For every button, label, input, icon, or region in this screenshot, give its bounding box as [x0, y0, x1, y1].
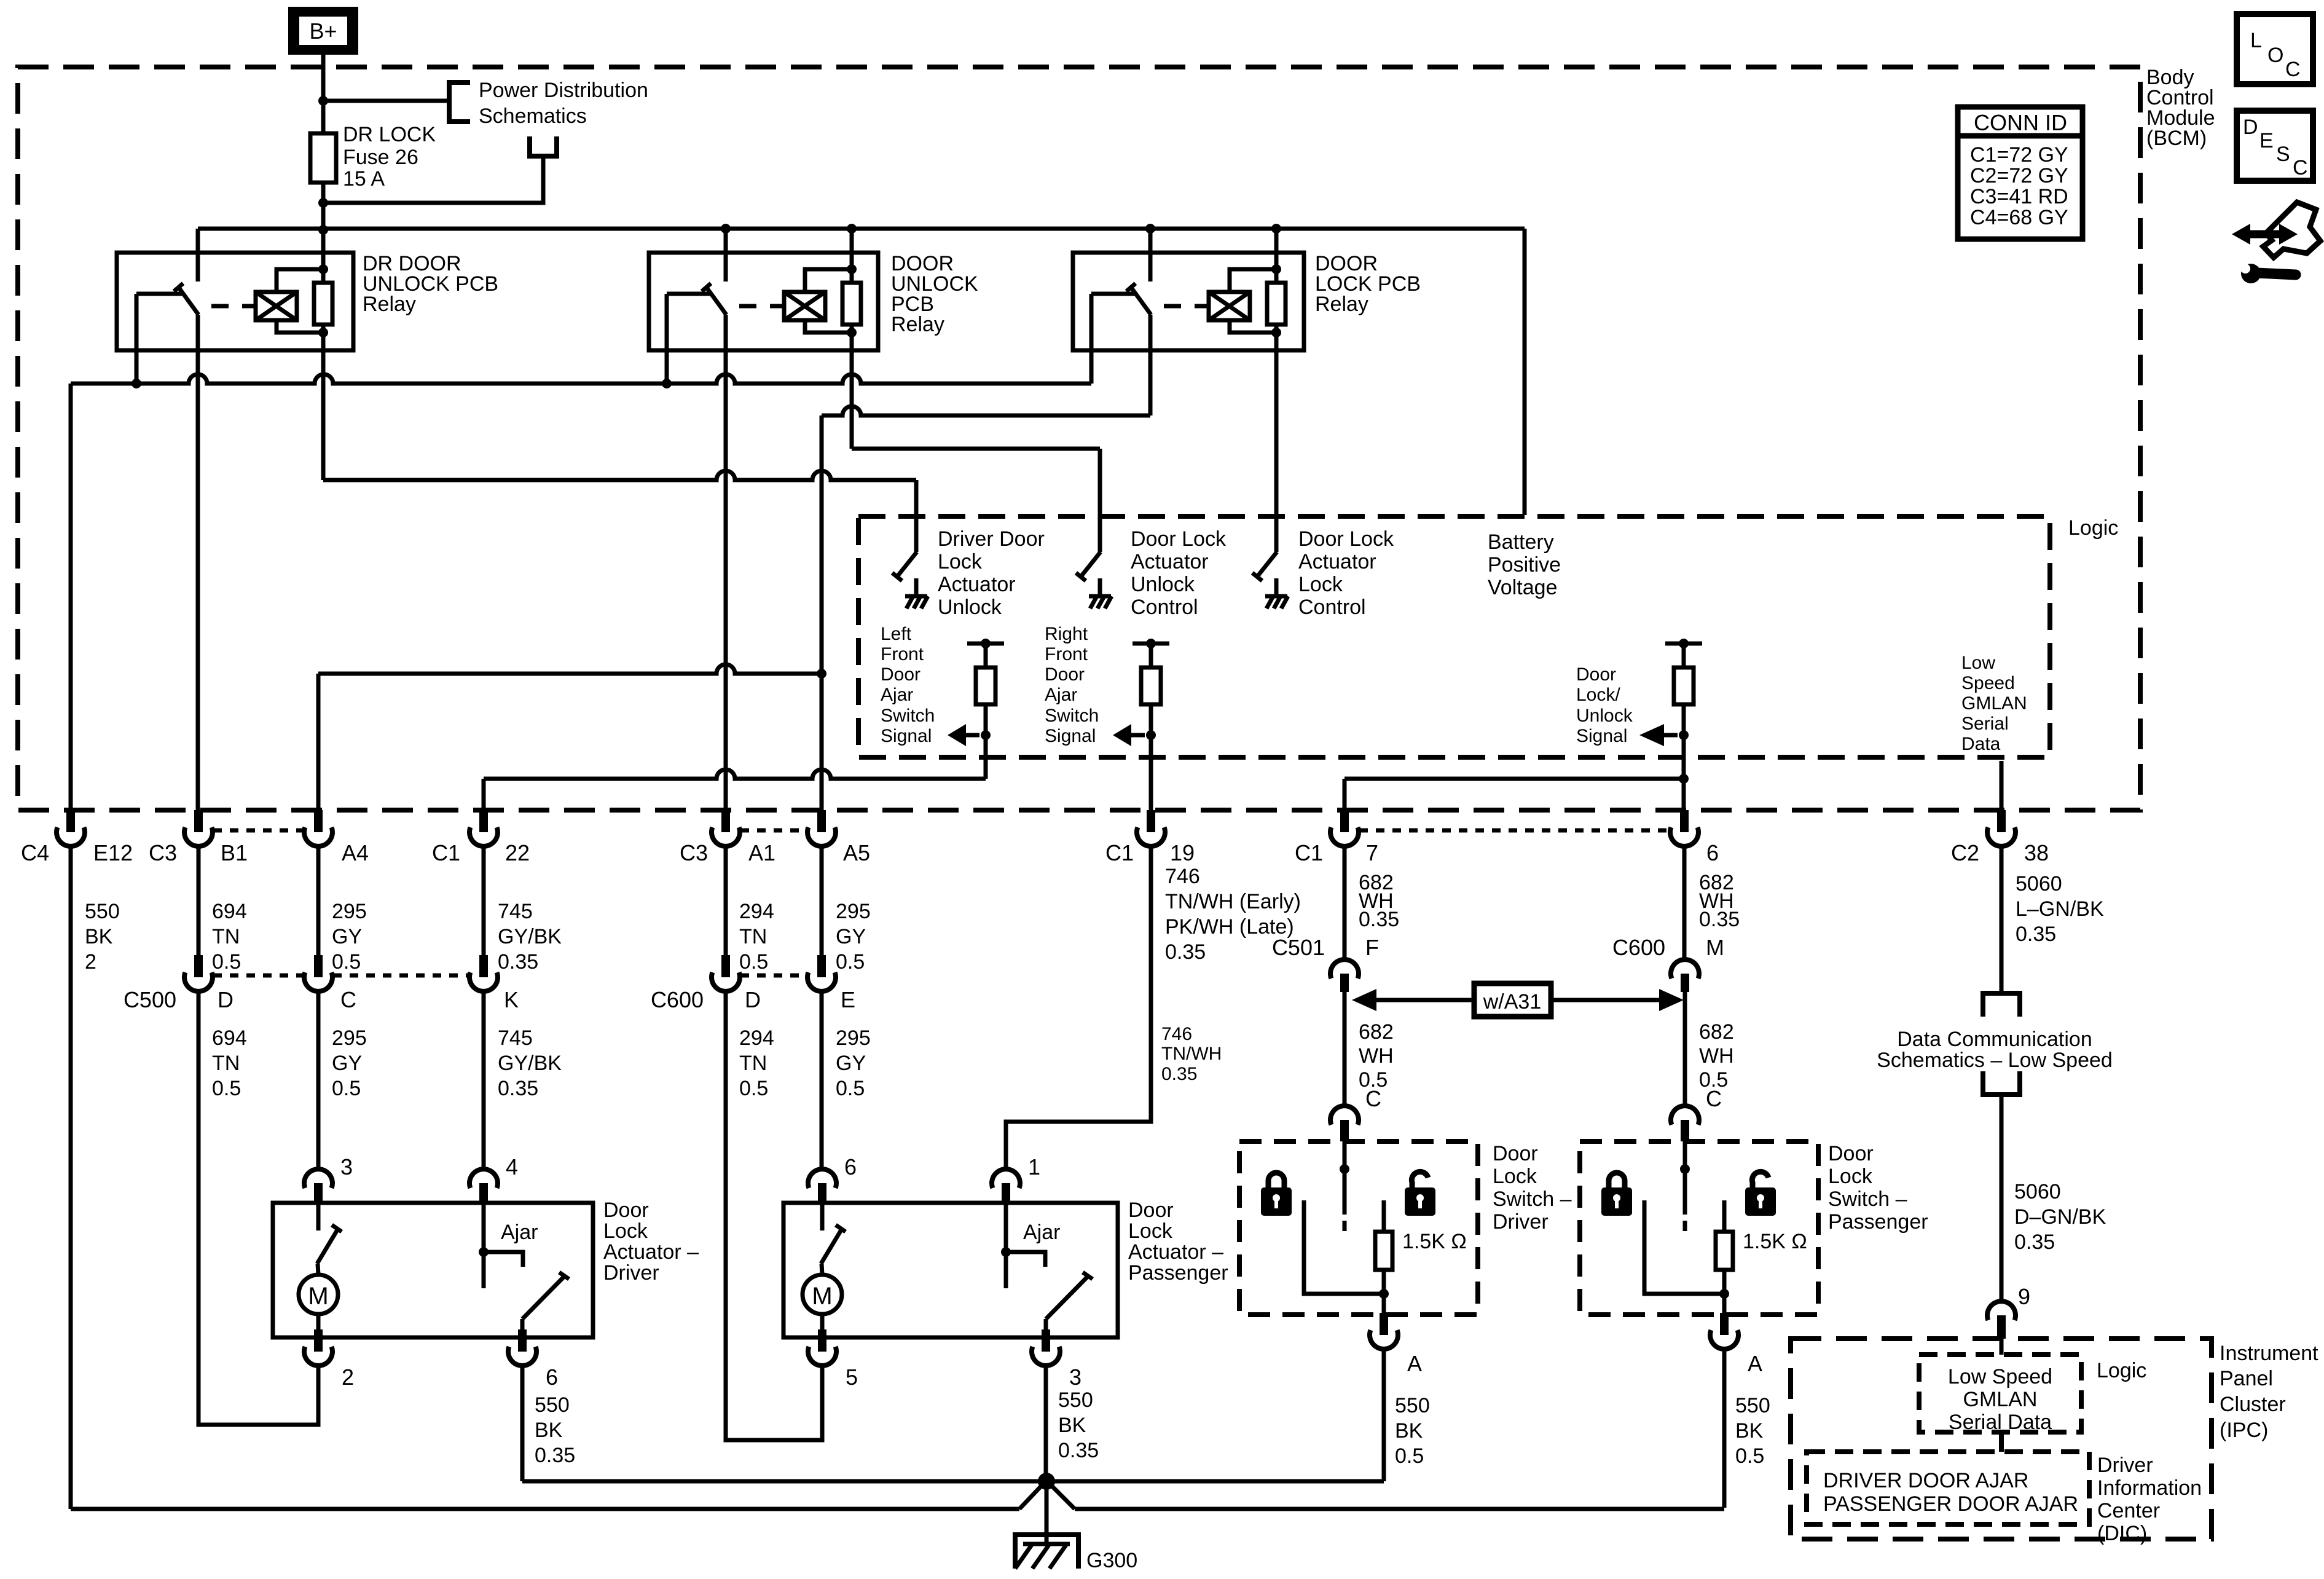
svg-text:C2=72 GY: C2=72 GY [1970, 164, 2068, 187]
svg-text:C600: C600 [651, 987, 704, 1012]
svg-text:Actuator: Actuator [1131, 550, 1209, 573]
door lock switch driver pole contact stub [1343, 1221, 1347, 1231]
svg-text:Logic: Logic [2097, 1359, 2146, 1382]
diagnostic pointer icon [2263, 202, 2320, 258]
svg-text:Front: Front [881, 644, 924, 664]
svg-text:E: E [2259, 129, 2274, 152]
svg-text:C: C [1365, 1086, 1381, 1111]
svg-text:Passenger: Passenger [1828, 1210, 1928, 1234]
svg-text:Actuator –: Actuator – [1128, 1240, 1223, 1264]
wire driver switch A down to ground rail [1382, 1349, 1386, 1481]
svg-text:550: 550 [1735, 1394, 1770, 1417]
wire relay2 coil riser [850, 229, 854, 270]
svg-text:A: A [1748, 1351, 1762, 1376]
junction door lock actuator passenger ajar node [1001, 1247, 1011, 1257]
connector pin at BCM x=3257 [1997, 810, 2006, 832]
svg-text:Driver: Driver [603, 1261, 659, 1285]
wire door lock actuator driver ajar feed [482, 1203, 486, 1252]
svg-text:0.35: 0.35 [498, 1077, 538, 1100]
relay K1 DR DOOR UNLOCK PCB coil bottom link [277, 320, 323, 333]
off-page bracket Data Communication (top) [1983, 993, 2020, 1017]
svg-text:0.35: 0.35 [2014, 1231, 2055, 1254]
wire B+ to fuse [321, 55, 326, 133]
door lock switch driver lock throw [1304, 1200, 1384, 1294]
svg-text:550: 550 [85, 900, 120, 923]
svg-text:294: 294 [739, 900, 774, 923]
door lock actuator driver M-switch blade [317, 1230, 337, 1264]
off-page reference bracket Power Distribution (top) [449, 82, 470, 122]
wire relay K1 DR DOOR UNLOCK PCB node column [321, 270, 326, 283]
connector door lock actuator driver pin 6 cup [518, 1329, 527, 1352]
svg-text:C: C [340, 987, 356, 1012]
resistor inside relay K1 DR DOOR UNLOCK PCB [314, 283, 332, 325]
wire door lock actuator passenger ajar blade drop [1044, 1319, 1048, 1337]
svg-text:0.35: 0.35 [535, 1444, 575, 1467]
relay K1 DR DOOR UNLOCK PCB switch common stub [136, 292, 182, 296]
wire from Power Distribution return bracket [323, 156, 543, 203]
door lock actuator passenger box [783, 1203, 1118, 1337]
svg-text:BK: BK [85, 925, 113, 948]
junction relay1 common on rail [132, 379, 141, 388]
connector C501-F cup [1340, 974, 1349, 992]
svg-text:Driver: Driver [2097, 1454, 2153, 1477]
power symbol B+ box [288, 7, 358, 55]
svg-text:Door: Door [603, 1199, 649, 1222]
svg-text:Relay: Relay [891, 313, 944, 336]
svg-text:5060: 5060 [2016, 872, 2062, 896]
wire left front door ajar switch signal resistor to arrow node [984, 704, 988, 735]
svg-text:C1=72 GY: C1=72 GY [1970, 143, 2068, 167]
wire passenger switch A down to lower rail [1722, 1349, 1727, 1508]
wire relay3 fixed riser [1148, 229, 1153, 282]
wire 7 to C501-F [1343, 846, 1347, 959]
wire pin38 stub inside logic [2000, 761, 2004, 810]
svg-text:D–GN/BK: D–GN/BK [2014, 1205, 2106, 1229]
wire driver ajar signal riser [984, 735, 988, 779]
wire door lock switch passenger resistor to output [1722, 1270, 1727, 1294]
wire door lock actuator driver switch feed [316, 1203, 321, 1231]
connector door lock actuator passenger pin 6 cup [818, 1183, 826, 1203]
svg-text:TN: TN [739, 1052, 767, 1075]
svg-text:Ajar: Ajar [1023, 1221, 1060, 1244]
svg-text:746: 746 [1161, 1024, 1192, 1044]
junction right front door ajar switch signal arrow node [1146, 730, 1156, 740]
connector door lock actuator driver pin 2 cup [314, 1329, 323, 1352]
svg-text:0.35: 0.35 [1161, 1064, 1197, 1084]
svg-text:Signal: Signal [1045, 726, 1096, 746]
svg-text:A: A [1407, 1351, 1422, 1376]
wire ground rail lower diagonal left [1019, 1484, 1043, 1509]
junction door lock switch driver output node [1379, 1289, 1389, 1299]
wire C500-C down to driver pin3 [316, 991, 321, 1169]
fuse F26 DR LOCK 15A [310, 133, 336, 183]
DESC icon box [2237, 111, 2313, 181]
wire A4 riser [316, 674, 321, 810]
svg-text:TN: TN [212, 1052, 240, 1075]
off-page reference bracket Power Distribution (return) [530, 136, 557, 156]
svg-text:A1: A1 [748, 840, 775, 865]
wire 6 to C600-M [1682, 846, 1687, 959]
svg-text:Low: Low [1961, 653, 1995, 673]
wire fuse to relay coil node [321, 183, 326, 270]
svg-text:0.5: 0.5 [836, 950, 865, 974]
wire E12 drop inside BCM [69, 384, 73, 810]
LOC icon box [2237, 14, 2313, 84]
junction door lock actuator driver ajar node [479, 1247, 489, 1257]
svg-text:0.35: 0.35 [1359, 908, 1399, 931]
svg-text:C4: C4 [21, 840, 49, 865]
svg-text:BK: BK [1735, 1419, 1764, 1443]
svg-text:746: 746 [1165, 865, 1200, 888]
svg-text:0.5: 0.5 [739, 1077, 768, 1100]
svg-text:A4: A4 [342, 840, 369, 865]
svg-text:Ajar: Ajar [1045, 685, 1077, 705]
svg-text:Door: Door [1045, 664, 1085, 685]
junction right front door ajar switch signal top node [1146, 639, 1156, 648]
svg-text:(BCM): (BCM) [2146, 127, 2207, 150]
resistor 1.5K door lock switch passenger [1716, 1232, 1733, 1270]
wire door lock switch passenger unlock throw top [1722, 1200, 1727, 1232]
switch door-lock-actuator-lock-control blade [1257, 552, 1277, 577]
wire relay1 coil-node output drop [321, 333, 326, 480]
svg-text:295: 295 [836, 900, 871, 923]
relay K3 DOOR LOCK PCB actuation dashed link [1164, 304, 1207, 309]
svg-text:745: 745 [498, 900, 533, 923]
svg-text:PASSENGER DOOR AJAR: PASSENGER DOOR AJAR [1823, 1492, 2078, 1516]
svg-text:Switch –: Switch – [1493, 1187, 1572, 1211]
wire pin 9 into GMLAN box [2000, 1339, 2004, 1355]
wire C501-F to driver switch pin C [1343, 992, 1347, 1106]
svg-text:38: 38 [2024, 840, 2049, 865]
wire relay3 blade output drop [1148, 315, 1153, 415]
svg-text:295: 295 [332, 1026, 367, 1050]
svg-text:Panel: Panel [2220, 1367, 2273, 1390]
switch door-lock-actuator-unlock-control blade [1081, 552, 1101, 577]
svg-text:745: 745 [498, 1026, 533, 1050]
right front door ajar switch signal top contact bar [1133, 642, 1169, 646]
connector door lock actuator passenger pin 5 cup [818, 1329, 826, 1352]
svg-text:694: 694 [212, 900, 247, 923]
svg-text:G300: G300 [1086, 1549, 1137, 1572]
svg-text:Door Lock: Door Lock [1298, 527, 1394, 551]
svg-text:4: 4 [506, 1154, 518, 1179]
wire C500-K down to driver pin4 [482, 991, 486, 1169]
svg-text:6: 6 [1706, 840, 1719, 865]
svg-text:BK: BK [535, 1419, 563, 1442]
connector C600-M cup [1681, 974, 1689, 992]
junction door lock/unlock signal top node [1679, 639, 1689, 648]
junction relay K3 DOOR LOCK PCB top node [1271, 264, 1281, 274]
svg-text:1: 1 [1028, 1154, 1040, 1179]
svg-text:0.5: 0.5 [212, 1077, 241, 1100]
svg-text:WH: WH [1699, 1044, 1734, 1068]
svg-text:TN/WH (Early): TN/WH (Early) [1165, 890, 1301, 913]
ground (logic) for door-lock-actuator-lock-control [1274, 578, 1279, 596]
svg-text:Passenger: Passenger [1128, 1261, 1228, 1285]
svg-text:C3: C3 [680, 840, 708, 865]
connector C500 cup x=323 [194, 955, 203, 977]
wire relay3 coil-node output drop (lock control) [1274, 333, 1279, 552]
svg-text:550: 550 [535, 1393, 570, 1417]
svg-text:Relay: Relay [363, 293, 416, 316]
svg-text:294: 294 [739, 1026, 774, 1050]
wire 38 to data-comm bracket [2000, 846, 2004, 993]
svg-text:0.5: 0.5 [739, 950, 768, 974]
wire B1 to C500-D [197, 846, 201, 957]
junction relay K2 DOOR UNLOCK PCB bottom node [847, 328, 857, 337]
svg-text:CONN ID: CONN ID [1974, 110, 2067, 135]
wire right front door ajar switch signal bar to resistor [1149, 644, 1153, 667]
svg-text:0.35: 0.35 [1058, 1439, 1099, 1462]
signal arrow door lock/unlock signal [1664, 733, 1678, 738]
wire unlock-control logic feed (y=730) [852, 447, 1100, 451]
CONN ID table [1958, 107, 2083, 239]
junction 682 tie on pin6 column [1679, 774, 1689, 784]
svg-text:Unlock: Unlock [938, 596, 1002, 619]
svg-text:Right: Right [1045, 624, 1088, 644]
svg-text:GY/BK: GY/BK [498, 1052, 562, 1075]
connector C500 cup x=787 [479, 955, 488, 977]
svg-text:Serial: Serial [1961, 714, 2009, 734]
svg-text:C600: C600 [1612, 935, 1665, 960]
junction door lock switch driver pole node [1340, 1164, 1349, 1174]
svg-text:Door: Door [1828, 1142, 1874, 1165]
svg-text:0.35: 0.35 [2016, 923, 2056, 946]
connector pin at BCM x=518 [314, 810, 323, 832]
svg-text:WH: WH [1359, 1044, 1394, 1068]
relay K3 DOOR LOCK PCB switch blade [1131, 288, 1151, 315]
connector door lock actuator passenger pin 1 cup [1002, 1183, 1010, 1203]
resistor 1.5K door lock switch driver [1375, 1232, 1392, 1270]
relay K1 DR DOOR UNLOCK PCB coil top link [277, 269, 323, 292]
svg-text:B1: B1 [221, 840, 248, 865]
junction rail at relay3 coil node [1271, 224, 1281, 234]
wire door lock switch passenger output drop [1722, 1294, 1727, 1315]
wire door lock/unlock signal resistor to arrow node [1682, 704, 1686, 735]
connector C600 cup x=1337 [817, 955, 826, 977]
svg-text:Serial Data: Serial Data [1949, 1411, 2052, 1434]
relay K2 DOOR UNLOCK PCB coil bottom link [805, 320, 852, 333]
svg-text:Actuator: Actuator [1298, 550, 1376, 573]
junction left front door ajar switch signal top node [981, 639, 991, 648]
ground G300 symbol [1045, 1481, 1049, 1544]
connector pin at BCM x=323 [194, 810, 203, 832]
resistor inside relay K2 DOOR UNLOCK PCB [842, 283, 861, 325]
wire relay K1 DR DOOR UNLOCK PCB common drop [135, 294, 139, 384]
wire pin6 column (door lock/unlock signal) [1682, 735, 1686, 810]
junction rail at relay3 fixed contact [1145, 224, 1155, 234]
connector pin at BCM x=1337 [817, 810, 826, 832]
svg-text:295: 295 [836, 1026, 871, 1050]
wire pin7 to pin6 tie (y=1267) [1345, 777, 1684, 781]
wire driver ajar signal (y=1267) [484, 770, 986, 779]
svg-text:Power Distribution: Power Distribution [479, 79, 648, 102]
wire door lock actuator driver blade to motor [318, 1264, 318, 1275]
svg-text:5060: 5060 [2014, 1180, 2061, 1203]
relay K2 DOOR UNLOCK PCB switch common stub [667, 292, 712, 296]
svg-text:C3: C3 [149, 840, 177, 865]
wire A5 column [820, 415, 824, 810]
connector IPC pin 9 cup [1997, 1315, 2006, 1339]
svg-text:Actuator –: Actuator – [603, 1240, 699, 1264]
svg-text:Driver: Driver [1493, 1210, 1549, 1234]
wire door lock switch driver pole [1343, 1141, 1347, 1215]
wire door lock/unlock signal bar to resistor [1682, 644, 1686, 667]
wire C600-E down to passenger pin6 [820, 991, 824, 1169]
wire driver-unlock logic feed drop [914, 480, 919, 552]
wire right front door ajar switch signal resistor to arrow node [1149, 704, 1153, 735]
svg-text:Driver Door: Driver Door [938, 527, 1045, 551]
svg-text:0.35: 0.35 [498, 950, 538, 974]
svg-text:TN: TN [212, 925, 240, 948]
svg-text:C4=68 GY: C4=68 GY [1970, 206, 2068, 229]
door lock actuator passenger ajar blade [1046, 1277, 1087, 1319]
svg-text:19: 19 [1170, 840, 1195, 865]
svg-text:682: 682 [1359, 1020, 1394, 1044]
svg-text:Logic: Logic [2068, 516, 2118, 540]
wire ground-side rail y=624 (E12 net) [71, 374, 1091, 384]
junction rail at relay2 coil node [847, 224, 857, 234]
svg-text:0.35: 0.35 [1699, 908, 1740, 931]
svg-text:Positive: Positive [1488, 553, 1561, 577]
relay K3 DOOR LOCK PCB coil bottom link [1230, 320, 1276, 333]
svg-text:GMLAN: GMLAN [1963, 1388, 2038, 1411]
svg-text:694: 694 [212, 1026, 247, 1050]
connector passenger switch pin C cup [1681, 1120, 1689, 1141]
wire door lock actuator driver ajar pole [482, 1252, 486, 1288]
svg-text:C: C [2285, 58, 2301, 81]
junction relay K3 DOOR LOCK PCB bottom node [1271, 328, 1281, 337]
wire relay3 coil riser [1274, 229, 1279, 270]
wire 22 riser (driver ajar signal) [482, 779, 486, 810]
svg-text:6: 6 [546, 1364, 558, 1390]
svg-text:682: 682 [1699, 1020, 1734, 1044]
connector door lock switch passenger pin A cup [1720, 1313, 1729, 1335]
connector pin at BCM x=787 [479, 810, 488, 832]
off-page bracket Data Communication (bottom) [1983, 1071, 2020, 1095]
junction ground node G300 [1038, 1473, 1055, 1490]
connector driver switch pin C cup [1340, 1120, 1349, 1141]
wire E12 550 BK 2 down [69, 846, 73, 1509]
connector bridge dotted C500 C-K [333, 974, 469, 978]
junction door lock switch passenger pole node [1680, 1164, 1690, 1174]
svg-text:Signal: Signal [881, 726, 932, 746]
svg-text:1.5K Ω: 1.5K Ω [1402, 1230, 1467, 1253]
wire door lock actuator passenger ajar pole [1004, 1252, 1008, 1288]
svg-text:D: D [2243, 116, 2258, 139]
svg-text:22: 22 [505, 840, 530, 865]
svg-text:C: C [2293, 156, 2308, 179]
connector door lock actuator passenger pin 3 cup [1042, 1329, 1050, 1352]
ground (logic) for door-lock-actuator-unlock-control [1098, 578, 1102, 596]
wire relay2 coil-node output drop [850, 333, 854, 449]
svg-text:Actuator: Actuator [938, 573, 1016, 596]
door lock actuator driver ajar blade [522, 1277, 563, 1319]
svg-text:Door: Door [1493, 1142, 1538, 1165]
svg-text:Door: Door [881, 664, 921, 685]
svg-text:Relay: Relay [1315, 293, 1368, 316]
wire relay1 blade output to B1 [196, 315, 200, 810]
signal arrow left front door ajar switch signal [966, 733, 979, 738]
svg-text:Unlock: Unlock [1576, 706, 1633, 726]
svg-text:Door: Door [1128, 1199, 1174, 1222]
wire ground rail lower diagonal right [1050, 1484, 1075, 1509]
svg-text:15 A: 15 A [343, 167, 385, 191]
connector bridge dotted A1-A5 [740, 829, 807, 833]
svg-text:Voltage: Voltage [1488, 576, 1557, 599]
junction left front door ajar switch signal arrow node [981, 730, 991, 740]
svg-text:0.5: 0.5 [1735, 1444, 1764, 1468]
svg-text:Low Speed: Low Speed [1948, 1365, 2052, 1388]
svg-text:L: L [2250, 29, 2262, 52]
wire ground rail lower y=2455 right [1075, 1507, 1724, 1511]
svg-text:w/A31: w/A31 [1483, 990, 1542, 1014]
svg-text:295: 295 [332, 900, 367, 923]
svg-text:Instrument: Instrument [2220, 1342, 2318, 1365]
door lock actuator driver box [273, 1203, 593, 1337]
svg-text:2: 2 [85, 950, 96, 974]
connector pin at BCM x=115 [66, 810, 75, 832]
svg-text:GY: GY [836, 1052, 866, 1075]
resistor inside relay K3 DOOR LOCK PCB [1267, 283, 1286, 325]
wire driver-unlock logic feed (y=781) [323, 471, 916, 480]
relay K2 DOOR UNLOCK PCB coil top link [805, 269, 852, 292]
svg-text:Data: Data [1961, 734, 2001, 754]
wire 19 to passenger pin1 [1006, 846, 1151, 1169]
wire C600-M to passenger switch pin C [1683, 992, 1687, 1106]
GMLAN serial data dashed box [1919, 1355, 2081, 1432]
relay K2 DOOR UNLOCK PCB coil [784, 292, 825, 320]
closed padlock icon door lock switch driver [1261, 1187, 1292, 1216]
door lock switch driver dashed box [1239, 1141, 1478, 1315]
svg-text:BK: BK [1395, 1419, 1423, 1443]
svg-text:Ajar: Ajar [501, 1221, 538, 1244]
svg-text:0.35: 0.35 [1165, 940, 1206, 964]
svg-text:Lock/: Lock/ [1576, 685, 1620, 705]
svg-text:Lock: Lock [938, 550, 983, 573]
wire relay K3 DOOR LOCK PCB node column [1274, 270, 1279, 283]
svg-text:E: E [841, 987, 855, 1012]
connector bridge dotted C600 D-E [740, 974, 807, 978]
relay K3 DOOR LOCK PCB switch common stub [1091, 292, 1137, 296]
w/A31 harness arrow left [1357, 998, 1474, 1002]
connector pin at BCM x=2188 [1340, 810, 1349, 832]
svg-text:Lock: Lock [1493, 1165, 1537, 1188]
wire battery feed to logic box [1523, 229, 1527, 515]
svg-text:M: M [1706, 935, 1724, 960]
connector door lock actuator driver pin 3 cup [314, 1183, 323, 1203]
wire door lock actuator driver ajar blade drop [520, 1319, 525, 1337]
svg-text:(IPC): (IPC) [2220, 1419, 2268, 1442]
junction relay K1 DR DOOR UNLOCK PCB top node [318, 264, 328, 274]
svg-text:Schematics – Low Speed: Schematics – Low Speed [1877, 1049, 2113, 1072]
svg-text:Unlock: Unlock [1131, 573, 1195, 596]
wire relay2 blade output to A1 [724, 315, 728, 810]
svg-text:C1: C1 [1105, 840, 1134, 865]
svg-text:GY: GY [332, 925, 362, 948]
resistor left front door ajar switch signal [976, 667, 995, 704]
wire door lock actuator passenger switch feed [820, 1203, 825, 1231]
wire passenger ajar signal column [1149, 735, 1153, 810]
svg-text:DRIVER DOOR AJAR: DRIVER DOOR AJAR [1823, 1469, 2028, 1492]
svg-text:Fuse 26: Fuse 26 [343, 146, 418, 169]
connector C600 cup x=1181 [721, 955, 730, 977]
svg-text:C3=41 RD: C3=41 RD [1970, 185, 2068, 208]
relay K2 DOOR UNLOCK PCB actuation dashed link [739, 304, 783, 309]
connector door lock switch driver pin A cup [1380, 1313, 1388, 1335]
left front door ajar switch signal top contact bar [967, 642, 1004, 646]
svg-text:K: K [504, 987, 519, 1012]
